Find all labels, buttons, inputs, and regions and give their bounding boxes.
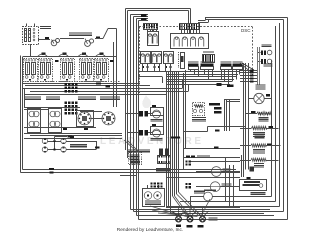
svg-text:LEADVENTURE: LEADVENTURE — [100, 136, 204, 147]
svg-text:Rendered by LeadVenture, Inc.: Rendered by LeadVenture, Inc. — [117, 227, 183, 233]
svg-text:DSC: DSC — [241, 28, 251, 33]
